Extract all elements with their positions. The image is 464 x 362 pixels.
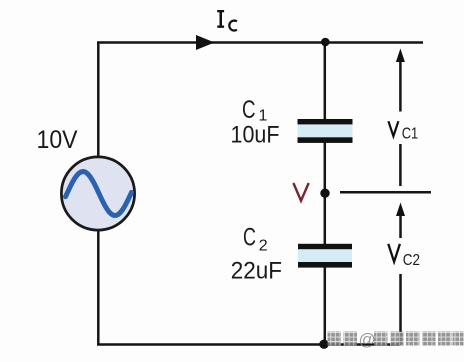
svg-text:10V: 10V — [37, 126, 78, 154]
svg-text:C: C — [242, 96, 256, 124]
svg-text:C2: C2 — [403, 252, 420, 269]
svg-text:C: C — [243, 223, 256, 251]
svg-text:C1: C1 — [402, 125, 419, 142]
svg-text:2: 2 — [259, 237, 268, 254]
svg-text:@: @ — [359, 330, 376, 349]
svg-text:10uF: 10uF — [231, 122, 280, 149]
svg-text:22uF: 22uF — [231, 257, 282, 284]
